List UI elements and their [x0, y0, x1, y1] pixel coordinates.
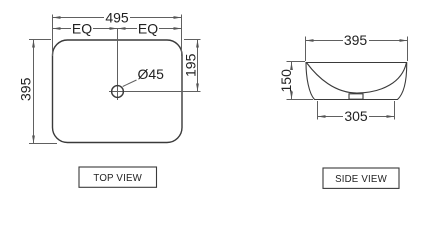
svg-text:EQ: EQ	[138, 20, 158, 36]
svg-text:SIDE VIEW: SIDE VIEW	[335, 174, 388, 185]
svg-text:495: 495	[105, 9, 129, 25]
svg-text:Ø45: Ø45	[138, 66, 165, 82]
svg-text:195: 195	[183, 53, 199, 77]
svg-text:150: 150	[278, 69, 294, 93]
svg-text:395: 395	[344, 32, 368, 48]
svg-text:395: 395	[18, 77, 34, 101]
svg-text:TOP VIEW: TOP VIEW	[93, 173, 142, 184]
svg-text:EQ: EQ	[72, 20, 92, 36]
svg-text:305: 305	[344, 108, 368, 124]
